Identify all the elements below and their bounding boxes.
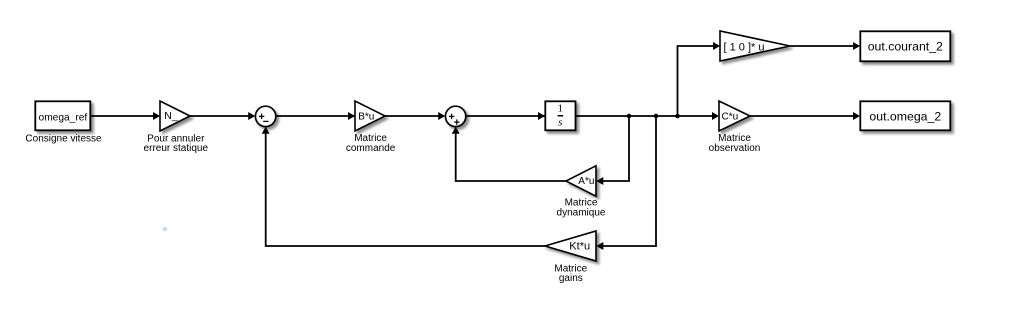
svg-text:Kt*u: Kt*u (569, 240, 590, 252)
svg-text:s: s (558, 117, 562, 129)
svg-text:out.omega_2: out.omega_2 (869, 110, 941, 124)
svg-text:N_: N_ (164, 110, 178, 122)
svg-text:C*u: C*u (722, 112, 739, 123)
svg-text:out.courant_2: out.courant_2 (868, 39, 943, 53)
svg-text:A*u: A*u (578, 176, 594, 187)
svg-text:erreur statique: erreur statique (144, 143, 209, 154)
svg-text:[ 1 0 ]* u: [ 1 0 ]* u (724, 41, 765, 53)
svg-text:Consigne vitesse: Consigne vitesse (25, 134, 102, 145)
svg-text:observation: observation (709, 143, 761, 154)
svg-text:B*u: B*u (358, 112, 374, 123)
svg-text:omega_ref: omega_ref (39, 112, 88, 123)
svg-text:dynamique: dynamique (557, 207, 606, 218)
svg-text:1: 1 (558, 103, 564, 115)
svg-text:commande: commande (346, 143, 396, 154)
svg-text:gains: gains (559, 273, 583, 284)
